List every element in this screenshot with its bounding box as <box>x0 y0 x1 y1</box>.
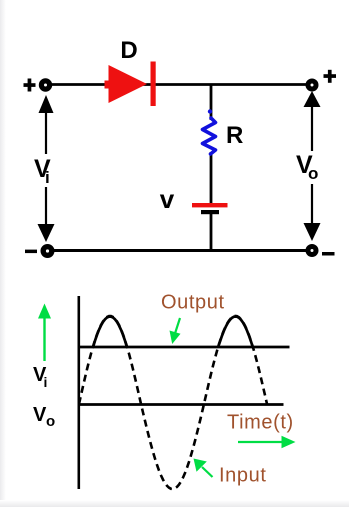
label Vo graph <box>33 404 55 430</box>
svg-text:o: o <box>46 413 55 430</box>
minus sign output <box>322 252 335 256</box>
arrow Time axis right <box>238 436 296 448</box>
svg-text:R: R <box>226 122 243 149</box>
terminal top-left <box>41 81 49 89</box>
wire resistor branch (junction at top rail to resistor) <box>210 85 213 121</box>
plus sign output <box>324 70 337 83</box>
wire top rail <box>50 83 307 86</box>
wire battery to bottom rail <box>210 213 213 251</box>
arrow Input pointer <box>194 459 213 478</box>
curve output first half-cycle (solid) <box>93 317 127 348</box>
wire bottom rail <box>46 249 313 252</box>
curve input sine (dashed) <box>79 316 267 489</box>
minus sign input <box>25 250 37 254</box>
svg-text:i: i <box>45 168 50 187</box>
svg-text:v: v <box>160 184 175 214</box>
graph y-axis <box>78 296 81 489</box>
battery v <box>192 203 228 214</box>
terminal bottom-right <box>308 247 316 255</box>
label Vi graph <box>33 364 47 390</box>
arrow Output pointer <box>170 318 181 344</box>
svg-text:D: D <box>120 37 137 64</box>
svg-text:i: i <box>44 374 48 390</box>
label Vo <box>296 151 318 183</box>
terminal bottom-left <box>43 247 52 256</box>
wire resistor to battery <box>210 152 213 204</box>
graph clip level line (output level) <box>78 346 290 349</box>
terminal top-right <box>308 81 316 89</box>
svg-text:V: V <box>33 404 47 426</box>
plus sign input <box>24 79 36 92</box>
label Vi <box>34 155 51 187</box>
svg-text:Time(t): Time(t) <box>227 412 294 434</box>
graph zero level line <box>78 403 284 406</box>
arrow green axis up <box>38 304 51 362</box>
svg-text:o: o <box>308 164 318 183</box>
arrow Vi (input voltage indicator) <box>38 95 55 242</box>
svg-text:Input: Input <box>219 465 266 487</box>
resistor R <box>203 109 216 154</box>
arrow Vo (output voltage indicator) <box>304 91 321 241</box>
curve output second half-cycle (solid) <box>218 317 253 348</box>
svg-text:Output: Output <box>161 292 225 314</box>
diode D <box>105 62 156 107</box>
